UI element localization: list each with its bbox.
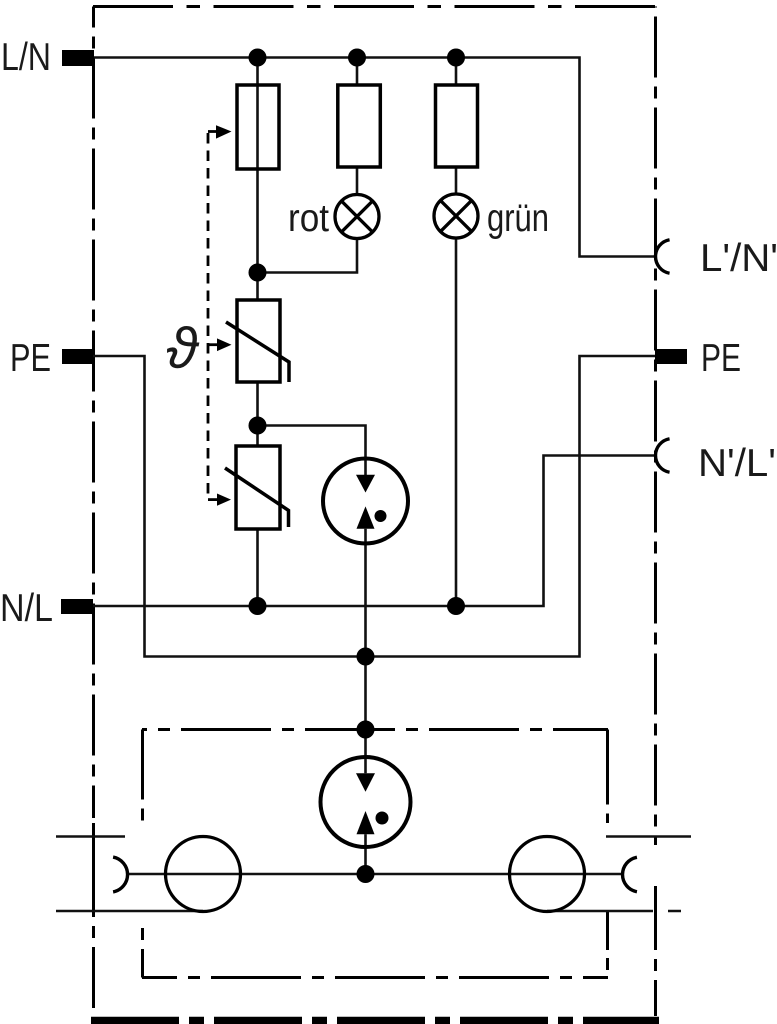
wire rot lamp branch upper	[356, 58, 359, 86]
spark gap FS1	[323, 459, 408, 544]
outer enclosure border right	[654, 7, 657, 846]
varistor MOV1	[226, 300, 289, 382]
wire PE path left-to-right	[93, 356, 655, 657]
svg-text:L'/N': L'/N'	[700, 237, 777, 280]
svg-text:N'/L': N'/L'	[698, 442, 776, 485]
svg-text:L/N: L/N	[1, 36, 51, 79]
wire disconnector branch	[256, 58, 259, 301]
junction node bottom	[357, 865, 375, 883]
junction node gruen-N/L	[447, 597, 465, 615]
outer enclosure border left	[92, 7, 95, 819]
terminal socket bottom right	[623, 857, 637, 891]
lamp gruen	[434, 194, 478, 238]
inner base-part box right	[606, 730, 609, 824]
wire node to spark gap 1	[258, 426, 366, 476]
wire varistor1 to varistor2	[256, 382, 259, 446]
outer enclosure border bottom (thick)	[91, 1017, 659, 1024]
contact circle bottom left	[166, 837, 241, 912]
wire bottom rail left continuation	[56, 910, 203, 913]
wire varistor2 to N/L bus	[256, 529, 259, 606]
wire bottom horizontal through contact circles	[128, 873, 622, 876]
svg-text:N/L: N/L	[0, 587, 53, 630]
arrow theta to varistor1	[209, 338, 232, 351]
svg-text:grün: grün	[487, 197, 549, 240]
arrow to disconnector	[208, 125, 232, 138]
junction node inner box top	[357, 721, 375, 739]
wire gruen resistor to lamp	[455, 167, 458, 194]
inner base-part box top	[142, 728, 608, 731]
spark gap FS2	[321, 757, 411, 847]
inner base-part box bottom	[142, 976, 608, 979]
terminal socket L'/N'	[656, 240, 670, 273]
terminal L/N	[62, 50, 94, 66]
junction node sparkgap-PE	[357, 648, 375, 666]
wire N/L bus to N'/L'	[93, 456, 654, 607]
wire gruen lamp to N/L bus	[455, 238, 458, 606]
terminal PE left	[62, 349, 93, 364]
lamp rot	[335, 195, 379, 239]
junction node varistor2-N/L	[249, 597, 267, 615]
outer enclosure border top	[93, 5, 656, 8]
junction node L/N-rot	[348, 49, 366, 67]
svg-text:PE: PE	[10, 337, 51, 380]
terminal socket N'/L'	[656, 439, 670, 472]
wire spark gap 1 down to spark gap 2	[364, 529, 367, 773]
terminal PE right	[655, 349, 687, 364]
varistor MOV2	[225, 446, 289, 529]
resistor R1 (rot)	[338, 85, 381, 167]
wire top rail right continuation	[606, 835, 691, 838]
junction node L/N-disconnector	[249, 49, 267, 67]
thermal linkage dashed line	[207, 133, 210, 497]
wire bottom rail right continuation	[547, 910, 681, 913]
inner base-part box left	[141, 730, 144, 824]
terminal N/L	[61, 599, 93, 614]
svg-text:rot: rot	[288, 197, 329, 240]
wire gruen lamp branch upper	[455, 58, 458, 86]
junction node disconnector-lamp	[249, 264, 267, 282]
wire rot resistor to lamp	[356, 167, 359, 195]
junction node L/N-gruen	[447, 49, 465, 67]
wire L/N bus to L'/N'	[93, 58, 654, 257]
contact circle bottom right	[510, 837, 585, 912]
resistor R2 (gruen)	[436, 85, 478, 167]
svg-text:ϑ: ϑ	[166, 316, 200, 381]
junction node varistor-sparkgap	[249, 417, 267, 435]
disconnector F1	[237, 85, 279, 169]
wire rot lamp to node	[258, 239, 358, 273]
arrow to varistor2	[208, 494, 231, 506]
wire spark gap 2 to bottom node	[364, 834, 367, 874]
svg-text:PE: PE	[701, 337, 741, 380]
wire top rail left continuation	[56, 835, 125, 838]
terminal socket bottom left	[113, 857, 127, 892]
